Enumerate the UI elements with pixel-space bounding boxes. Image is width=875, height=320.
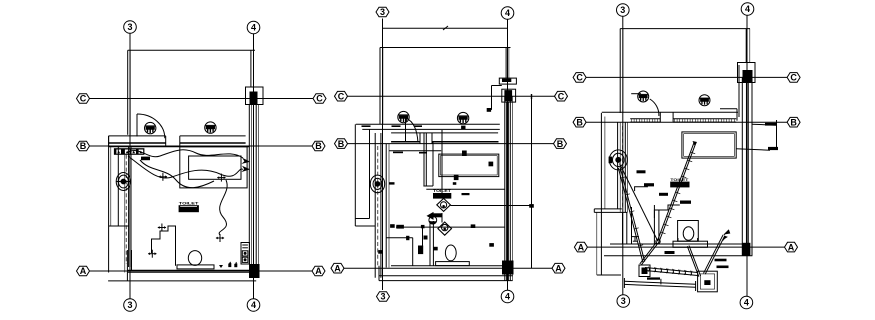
svg-text:3: 3 xyxy=(127,22,132,32)
grid bubble 3 bottom xyxy=(377,292,390,302)
grid bubble C right xyxy=(555,91,568,101)
left wall multi xyxy=(375,133,389,278)
grid bubble A left xyxy=(574,242,587,252)
junction boxes xyxy=(378,151,534,255)
basin symbol xyxy=(370,175,384,193)
diamond symbol 1 xyxy=(437,198,451,211)
svg-text:4: 4 xyxy=(745,4,750,14)
svg-text:4: 4 xyxy=(505,292,510,302)
column C4 box xyxy=(246,87,264,105)
TOILET label xyxy=(670,177,689,188)
floor trap junction xyxy=(656,239,660,243)
grid line C horizontal xyxy=(586,76,787,78)
shaft left wall double xyxy=(379,48,381,125)
bottom vent pipe xyxy=(624,278,695,291)
bottom wall xyxy=(108,250,256,281)
grid line A horizontal xyxy=(587,246,785,248)
svg-text:A: A xyxy=(334,263,341,273)
column A4 fill xyxy=(742,243,750,256)
ceiling point cross 2 xyxy=(158,224,167,232)
shaft right wall double xyxy=(250,50,252,87)
wavy conduit drop xyxy=(219,180,227,235)
inspection box 1 xyxy=(639,265,650,277)
right wall multi xyxy=(739,65,752,256)
label dash 5 xyxy=(715,259,727,262)
grid line 4 vertical xyxy=(746,16,748,297)
grid bubble A right xyxy=(785,242,798,252)
svg-text:B: B xyxy=(80,141,87,151)
door leader and arc xyxy=(631,94,659,116)
dimension line top xyxy=(383,26,508,30)
ceiling fan F5 xyxy=(638,91,649,102)
grid bubble 3 top xyxy=(617,4,630,17)
grid line C horizontal xyxy=(90,98,314,100)
conduit arrowhead 2 xyxy=(242,166,251,172)
drain diagonal D2 xyxy=(618,167,644,262)
leader line vertical xyxy=(531,94,533,268)
grid bubble C left xyxy=(77,94,90,104)
grid bubble C left xyxy=(335,91,348,101)
grid line A horizontal xyxy=(90,270,313,272)
left outer wall lines xyxy=(355,124,375,226)
grid line B horizontal xyxy=(90,145,313,147)
dim smudge under counter xyxy=(462,193,470,195)
meter box xyxy=(241,243,250,265)
grid bubble B right xyxy=(554,139,567,149)
TOILET label xyxy=(179,200,200,212)
drain diagonal D4 xyxy=(640,242,659,265)
left outer wall lines xyxy=(109,136,129,273)
bottom wall xyxy=(379,266,513,281)
grid line C horizontal xyxy=(348,95,555,97)
door swing arc xyxy=(406,118,418,142)
counter outer rectangle xyxy=(180,147,247,188)
ceiling point cross 3 xyxy=(148,250,157,258)
bottom small symbols xyxy=(219,262,237,269)
column C4 fill xyxy=(743,70,753,83)
grid bubble A left xyxy=(331,263,344,273)
label dash 7 xyxy=(659,193,668,196)
grid bubble B left xyxy=(573,117,586,127)
vertical leader B xyxy=(776,120,778,150)
grid bubble 3 bottom xyxy=(124,299,137,312)
ceiling fan F3 xyxy=(398,111,409,122)
basin symbol xyxy=(609,150,628,170)
svg-text:3: 3 xyxy=(127,300,132,310)
svg-text:A: A xyxy=(788,242,795,252)
leader to wall tick xyxy=(451,205,532,207)
dimension texts top band xyxy=(362,125,428,153)
svg-text:3: 3 xyxy=(380,292,385,302)
switch board xyxy=(114,148,144,155)
shower step partition xyxy=(430,221,433,266)
grid line 4 vertical xyxy=(253,34,255,299)
shaft left wall double xyxy=(619,29,621,113)
grid bubble 4 bottom xyxy=(740,296,753,309)
grid line 3 vertical xyxy=(622,17,624,295)
grid line A horizontal xyxy=(344,267,552,269)
door leaf xyxy=(136,114,138,137)
basin tap tick xyxy=(389,182,395,184)
counter rectangle xyxy=(439,154,499,177)
grid bubble C left xyxy=(573,73,586,83)
grid bubble 4 bottom xyxy=(247,299,260,312)
left wall lower xyxy=(623,212,627,244)
svg-text:A: A xyxy=(578,242,585,252)
ceiling fan F6 xyxy=(699,95,710,106)
shaft top wall xyxy=(380,47,511,49)
junction box at column xyxy=(487,108,491,112)
grid bubble 3 top xyxy=(124,21,137,34)
svg-text:4: 4 xyxy=(744,298,749,308)
svg-text:C: C xyxy=(338,91,345,101)
svg-text:C: C xyxy=(558,91,565,101)
drain diagonal D6 xyxy=(704,230,731,275)
svg-text:C: C xyxy=(790,73,797,83)
ceiling point cross 4 xyxy=(216,234,225,242)
wall hatch ticks xyxy=(632,119,735,122)
door jamb left xyxy=(165,136,167,147)
ceiling point cross 5 xyxy=(217,174,226,182)
water closet WC xyxy=(436,245,470,266)
grid bubble A left xyxy=(77,266,90,276)
room top wall band xyxy=(109,136,250,147)
geyser symbol xyxy=(116,173,130,191)
svg-text:3: 3 xyxy=(380,7,385,17)
svg-text:4: 4 xyxy=(251,23,256,33)
column C4 body xyxy=(502,89,516,102)
room top wall band xyxy=(602,112,738,122)
T symbol 1 xyxy=(631,237,639,242)
ledge step small xyxy=(635,187,648,191)
column A4 fill xyxy=(249,264,260,278)
wavy conduit 1 xyxy=(128,150,243,158)
right wall double xyxy=(249,105,258,265)
svg-text:B: B xyxy=(790,117,797,127)
room top wall band xyxy=(356,124,500,143)
door swing arc xyxy=(137,114,165,138)
shower step partition xyxy=(152,226,176,266)
shaft right wall double xyxy=(745,29,747,63)
shaft left wall double xyxy=(127,50,129,135)
grid bubble C right xyxy=(313,94,326,104)
svg-text:B: B xyxy=(557,139,564,149)
room corner ledge top right xyxy=(720,109,737,121)
pipe dimension dash xyxy=(647,277,660,279)
label dash 6 xyxy=(717,266,729,269)
counter rectangle xyxy=(189,156,241,179)
grid bubble 4 top xyxy=(247,21,260,34)
grid bubble B left xyxy=(335,139,348,149)
left wall upper xyxy=(601,113,627,275)
svg-text:4: 4 xyxy=(251,300,256,310)
TOILET label xyxy=(433,188,451,198)
junction box below switch board xyxy=(141,157,150,161)
svg-text:TOILET: TOILET xyxy=(433,188,451,193)
wavy conduit 3 xyxy=(140,160,214,188)
svg-text:C: C xyxy=(316,94,323,104)
svg-text:3: 3 xyxy=(621,296,626,306)
WC tank xyxy=(673,221,708,248)
svg-text:4: 4 xyxy=(505,8,510,18)
grid bubble B left xyxy=(77,141,90,151)
shelf line below counter xyxy=(426,188,505,190)
svg-text:TOILET: TOILET xyxy=(179,200,199,205)
column C4 box xyxy=(738,63,756,83)
svg-text:B: B xyxy=(315,141,322,151)
tick below counter xyxy=(453,182,457,185)
door jamb right xyxy=(179,136,181,147)
grid bubble A right xyxy=(552,263,565,273)
shelf line xyxy=(389,150,441,152)
left wall notch xyxy=(594,209,627,275)
svg-text:C: C xyxy=(576,73,583,83)
ceiling fan F4 xyxy=(457,112,468,123)
interior partition verticals xyxy=(654,205,659,244)
grid bubble 3 top xyxy=(376,7,389,17)
bottom wall A xyxy=(604,244,752,256)
junction box left of step xyxy=(424,236,428,240)
bench left vertical xyxy=(631,207,633,244)
label dash 3 xyxy=(680,201,691,204)
ceiling point cross 1 xyxy=(159,173,168,181)
grid bubble A right xyxy=(312,266,325,276)
svg-text:A: A xyxy=(80,266,87,276)
column C4 fill xyxy=(250,92,258,105)
drain vent flag xyxy=(723,236,728,242)
diamond symbol 2 xyxy=(438,213,452,235)
inspection box 2 xyxy=(698,271,718,292)
leader annotation 1 xyxy=(752,123,777,126)
svg-text:A: A xyxy=(315,266,322,276)
bench step xyxy=(654,205,679,218)
svg-text:C: C xyxy=(80,94,87,104)
left wall double xyxy=(125,147,131,273)
water closet WC xyxy=(177,251,214,269)
label dash 4 xyxy=(665,251,675,254)
svg-text:3: 3 xyxy=(620,5,625,15)
drain diagonal D1 xyxy=(657,141,697,242)
label dash 2 xyxy=(637,170,646,173)
svg-text:B: B xyxy=(576,117,583,127)
grid bubble B right xyxy=(787,117,800,127)
grid line 4 vertical xyxy=(507,20,509,291)
leader annotation 2 xyxy=(736,147,778,150)
conduit horizontal xyxy=(396,226,505,228)
shaft top wall xyxy=(620,28,750,30)
column hook line xyxy=(492,86,502,110)
grid line 3 vertical xyxy=(129,34,131,299)
column C4 ledge xyxy=(499,78,516,84)
grid line 3 vertical xyxy=(382,19,384,291)
grid bubble 4 top xyxy=(501,7,514,20)
column A4 fill xyxy=(502,261,514,275)
door leaf xyxy=(405,118,407,142)
drain bundle horizontal xyxy=(645,267,698,276)
grid bubble 4 bottom xyxy=(501,290,514,303)
ceiling fan F1 xyxy=(145,122,156,133)
interior partition verticals xyxy=(423,130,442,198)
svg-text:A: A xyxy=(555,263,562,273)
drain line basin xyxy=(620,164,658,241)
grid line B horizontal xyxy=(586,121,787,123)
shaft top wall xyxy=(128,49,255,51)
wavy conduit 2 xyxy=(128,156,243,178)
grid bubble C right xyxy=(787,73,800,83)
svg-text:B: B xyxy=(338,139,345,149)
grid bubble 3 bottom xyxy=(617,295,630,308)
counter rectangle xyxy=(682,132,736,158)
grid bubble 4 top xyxy=(741,3,754,16)
conduit stub left xyxy=(386,227,422,266)
grid bubble B right xyxy=(312,141,325,151)
junction below fan F4 xyxy=(461,126,465,129)
right wall multi xyxy=(505,96,513,280)
conduit arrowhead 1 xyxy=(242,158,251,164)
grid line B horizontal xyxy=(348,143,554,145)
label dash 1 xyxy=(644,183,654,186)
drain diagonal D5 xyxy=(687,246,700,277)
ceiling fan F2 xyxy=(205,122,216,133)
shaft right wall double xyxy=(505,48,507,79)
arrow symbol xyxy=(427,212,442,224)
